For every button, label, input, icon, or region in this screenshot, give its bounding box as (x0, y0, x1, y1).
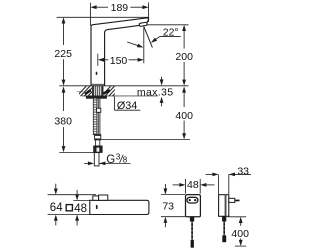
cable connector (97, 108, 101, 112)
counter hatching right of shank (101, 86, 126, 97)
plan view: sensor housing bump right part (99, 195, 108, 200)
side view mains plug (229, 198, 235, 202)
dimension 150: center extension line (97, 54, 99, 66)
svg-text:48: 48 (74, 203, 87, 215)
dimension 400 left: vertical line + arrows (182, 86, 186, 92)
faucet side view: front face and spout underside (105, 25, 140, 85)
svg-text:max.35: max.35 (137, 86, 174, 98)
dimension 33: extension lines (218, 174, 220, 194)
svg-text:150: 150 (110, 55, 128, 67)
dimension 400 right: bottom extension line (235, 245, 246, 247)
label box O34: left + bottom lines (113, 96, 115, 110)
mounting washer plate under counter (86, 96, 106, 98)
spray angle: vertical reference line from outlet (143, 26, 145, 63)
svg-text:64: 64 (50, 202, 63, 214)
spray angle: right leader arrow from label (153, 36, 160, 41)
dimension 150: line + arrows (104, 59, 108, 61)
corrugated supply hose (93, 98, 97, 135)
side view seam (dark band) (225, 195, 227, 217)
sensor cable beside hose (97, 98, 99, 135)
dimension 225: vertical line + arrows (63, 23, 65, 46)
counter hatching left of shank (77, 86, 102, 97)
plan view: sensor housing bump left part (93, 196, 99, 200)
front view cable stub (190, 217, 194, 222)
plan dims: top tick (64) (48, 194, 97, 196)
front view cable (191, 222, 193, 240)
control unit front view body (186, 195, 201, 217)
control unit side view body (219, 195, 229, 217)
dimension 189: extension lines (89, 3, 91, 26)
dimension 380: vertical line + arrows (62, 86, 66, 92)
thick washer wedge left of shank (85, 90, 91, 94)
33 underline (229, 173, 251, 175)
hose fitting (check valve) (95, 135, 101, 140)
dimension 33: arrow lines (206, 173, 213, 175)
svg-text:G: G (106, 154, 115, 166)
threaded connection tube G3/8 (94, 153, 99, 166)
svg-text:189: 189 (111, 2, 129, 14)
svg-text:33: 33 (237, 165, 249, 177)
front view cable end plug (191, 240, 194, 248)
plan dims: bottom tick (48, 214, 90, 216)
dimension 200: vertical line + arrows (183, 31, 185, 49)
dimension 400 right: arrows + line (239, 217, 243, 223)
plan dims: mid tick (48) (73, 200, 90, 202)
svg-text:200: 200 (175, 51, 193, 63)
aerator outlet (tilted stadium) (139, 22, 147, 26)
plan dims: arrows 64 (55, 184, 57, 189)
spray angle: 22-degree slanted line (144, 26, 153, 47)
dimension 225: top extension line (57, 16, 149, 18)
dimension 189: line + arrows (96, 6, 108, 8)
dimension 400 left: bottom extension line (100, 138, 189, 140)
faucet base joint line (91, 83, 104, 85)
spray angle: left leader arrow (127, 42, 138, 46)
dimension G3/8: arrows (84, 162, 88, 164)
side view cable stub (222, 216, 226, 221)
svg-text:48: 48 (187, 179, 199, 191)
counter top surface line (59, 85, 188, 87)
side view cable (223, 222, 225, 236)
plan dims: arrows 48 (76, 190, 78, 194)
svg-text:380: 380 (54, 116, 72, 128)
svg-text:3: 3 (116, 153, 121, 162)
svg-text:73: 73 (162, 200, 174, 212)
plan view: sensor dot (96, 205, 98, 209)
svg-text:400: 400 (175, 110, 193, 122)
dimension 400 right: top extension line (228, 216, 246, 218)
svg-text:400: 400 (231, 228, 249, 240)
G3/8 union nut (94, 146, 102, 152)
G3/8 underline (continues from right arrow) (99, 163, 130, 165)
plan view: spout body rectangle (90, 200, 149, 214)
square symbol for 48 (66, 205, 72, 211)
svg-text:8: 8 (123, 156, 128, 165)
side view cable end plug (222, 235, 226, 242)
dimension 73: ticks (161, 194, 185, 196)
sensor mark on faucet body (96, 72, 98, 75)
counter bottom surface line (82, 95, 158, 97)
dimension 380: bottom extension line (59, 152, 100, 154)
short tube (96, 140, 100, 146)
counter mid faint line left (77, 91, 83, 93)
oval window dots (189, 199, 191, 201)
dimension max.35: arrows (161, 77, 163, 80)
thick washer wedge right of shank (103, 90, 109, 93)
svg-text:225: 225 (54, 48, 72, 60)
faucet side view: outer outline (left edge, sloped top, tip) (91, 18, 149, 86)
threaded shank through counter (93, 86, 103, 96)
control unit oval window (187, 197, 198, 203)
svg-text:Ø34: Ø34 (117, 100, 137, 112)
dimension 200: outlet level extension line (147, 24, 189, 26)
dimension 73: arrows (164, 184, 166, 188)
dimension 48: arrow lines (173, 184, 180, 186)
dimension 48 (control unit): extension lines (185, 179, 187, 194)
